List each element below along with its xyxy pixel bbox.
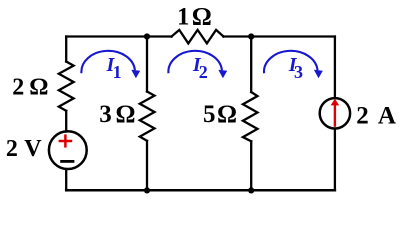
- wire branch2 lower: [146, 141, 148, 191]
- wire branch3 upper: [250, 37, 252, 93]
- voltage source 2V circle: [49, 131, 87, 169]
- voltage source plus sign: [59, 134, 73, 147]
- resistor 3Ω (vertical zigzag): [140, 92, 155, 141]
- current source arrow (up): [331, 99, 340, 127]
- resistor 1Ω (horizontal zigzag): [172, 30, 224, 44]
- node top-left junction: [144, 33, 150, 39]
- wire branch3 lower: [250, 141, 252, 190]
- resistor 2Ω (vertical zigzag): [59, 62, 74, 111]
- wire left branch middle: [65, 111, 67, 132]
- svg-text:A: A: [378, 102, 396, 129]
- svg-text:3: 3: [294, 62, 303, 82]
- mesh current arc I2: [168, 51, 222, 73]
- wire bottom: [66, 189, 335, 192]
- svg-text:Ω: Ω: [217, 101, 237, 128]
- svg-text:1: 1: [177, 3, 190, 30]
- svg-text:1: 1: [113, 62, 122, 82]
- svg-text:2: 2: [6, 136, 18, 162]
- wire top-right segment: [224, 35, 335, 37]
- wire branch2 upper: [146, 37, 148, 92]
- wire top-left segment: [66, 35, 171, 37]
- wire right branch upper: [334, 37, 336, 99]
- svg-text:5: 5: [203, 101, 216, 128]
- resistor 5Ω (vertical zigzag): [243, 92, 258, 141]
- svg-text:Ω: Ω: [29, 75, 48, 101]
- wire right branch lower: [334, 129, 336, 191]
- wire left branch upper: [65, 37, 67, 62]
- svg-text:2: 2: [199, 62, 208, 82]
- node bottom-right junction: [248, 187, 254, 193]
- svg-text:Ω: Ω: [116, 101, 136, 128]
- node top-right junction: [248, 33, 254, 39]
- svg-text:3: 3: [99, 101, 112, 128]
- svg-text:V: V: [24, 136, 42, 162]
- voltage source minus sign: [60, 160, 74, 163]
- node bottom-left junction: [144, 187, 150, 193]
- mesh current arc I1: [81, 51, 135, 73]
- svg-text:Ω: Ω: [192, 3, 212, 30]
- wire left branch lower: [65, 170, 67, 191]
- svg-text:2: 2: [12, 75, 24, 101]
- mesh current arc I3: [264, 51, 318, 73]
- current source 2A circle: [320, 98, 350, 128]
- svg-text:2: 2: [356, 102, 369, 129]
